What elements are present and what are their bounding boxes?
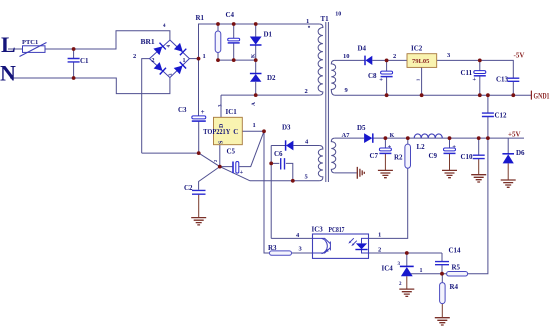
svg-text:2: 2 xyxy=(399,282,402,287)
svg-text:10: 10 xyxy=(335,11,341,17)
svg-text:D4: D4 xyxy=(358,45,367,53)
svg-text:C11: C11 xyxy=(461,69,473,77)
svg-text:1: 1 xyxy=(416,78,421,81)
svg-text:PTC1: PTC1 xyxy=(22,39,38,46)
svg-text:1: 1 xyxy=(306,18,309,25)
svg-text:4: 4 xyxy=(305,139,309,146)
svg-text:2: 2 xyxy=(133,53,136,60)
svg-text:D1: D1 xyxy=(264,31,273,39)
svg-text:BR1: BR1 xyxy=(141,37,155,46)
svg-text:4: 4 xyxy=(163,24,166,29)
svg-text:3: 3 xyxy=(169,73,174,76)
svg-text:L: L xyxy=(1,32,16,57)
svg-text:C5: C5 xyxy=(227,148,236,156)
svg-text:L2: L2 xyxy=(417,143,426,151)
svg-text:C: C xyxy=(233,128,238,136)
svg-text:IC3: IC3 xyxy=(312,226,324,234)
svg-text:A7: A7 xyxy=(342,132,351,139)
svg-text:-5V: -5V xyxy=(514,52,525,60)
svg-text:+5V: +5V xyxy=(508,130,521,138)
svg-text:R4: R4 xyxy=(450,283,459,291)
svg-text:1: 1 xyxy=(378,232,381,239)
svg-text:1: 1 xyxy=(203,53,206,60)
svg-text:C14: C14 xyxy=(449,247,462,255)
svg-text:1: 1 xyxy=(183,58,186,64)
svg-text:N: N xyxy=(0,61,16,86)
svg-text:5: 5 xyxy=(305,174,309,181)
svg-text:C4: C4 xyxy=(226,11,235,19)
svg-text:C9: C9 xyxy=(429,152,438,160)
svg-text:1: 1 xyxy=(420,268,423,274)
svg-text:C6: C6 xyxy=(274,150,283,158)
svg-text:K: K xyxy=(390,133,395,139)
svg-text:+: + xyxy=(472,76,476,83)
svg-text:79L05: 79L05 xyxy=(412,58,430,65)
svg-text:2: 2 xyxy=(393,53,396,60)
svg-text:2: 2 xyxy=(378,247,381,254)
svg-text:C2: C2 xyxy=(184,184,193,192)
svg-text:4: 4 xyxy=(167,45,172,48)
svg-text:TOP221Y: TOP221Y xyxy=(203,128,230,136)
svg-text:2: 2 xyxy=(305,88,308,95)
svg-text:+: + xyxy=(388,144,392,151)
svg-text:R3: R3 xyxy=(268,244,277,252)
svg-text:R1: R1 xyxy=(196,14,205,22)
svg-text:+: + xyxy=(201,108,205,116)
svg-text:3: 3 xyxy=(299,246,303,253)
svg-text:C8: C8 xyxy=(368,72,377,80)
svg-text:+: + xyxy=(240,169,244,176)
svg-text:C13: C13 xyxy=(496,76,509,84)
svg-text:9: 9 xyxy=(345,87,349,94)
svg-text:C12: C12 xyxy=(495,112,508,120)
svg-text:PC817: PC817 xyxy=(329,226,345,234)
svg-text:T1: T1 xyxy=(321,15,330,23)
svg-text:D3: D3 xyxy=(282,124,291,132)
svg-text:IC4: IC4 xyxy=(382,265,394,273)
svg-text:GND1: GND1 xyxy=(534,92,550,101)
svg-text:R2: R2 xyxy=(394,154,403,162)
svg-text:K: K xyxy=(251,53,257,58)
svg-text:10: 10 xyxy=(343,53,350,60)
svg-text:2: 2 xyxy=(213,159,218,162)
svg-text:+: + xyxy=(452,144,456,151)
svg-text:1: 1 xyxy=(253,122,256,129)
svg-text:C1: C1 xyxy=(80,57,89,65)
svg-text:C10: C10 xyxy=(461,153,474,161)
svg-text:2: 2 xyxy=(152,58,155,64)
svg-text:C7: C7 xyxy=(370,152,379,160)
svg-text:IC2: IC2 xyxy=(411,45,423,53)
svg-text:IC1: IC1 xyxy=(226,108,238,116)
svg-text:D6: D6 xyxy=(516,149,525,157)
svg-text:R5: R5 xyxy=(452,264,461,272)
svg-text:D5: D5 xyxy=(357,124,366,132)
svg-text:3: 3 xyxy=(447,52,451,59)
svg-text:D2: D2 xyxy=(267,74,276,82)
svg-text:+: + xyxy=(379,76,383,83)
svg-text:C3: C3 xyxy=(178,106,187,114)
svg-text:A: A xyxy=(251,102,257,106)
